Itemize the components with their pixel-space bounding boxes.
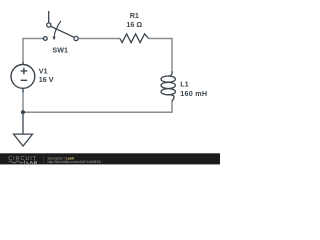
svg-text:160 mH: 160 mH: [180, 89, 207, 98]
circuitlab logo wave: [9, 161, 23, 163]
junction node: [21, 110, 25, 114]
wire R1 to L1 top: [149, 39, 172, 71]
svg-text:R1: R1: [130, 11, 139, 20]
svg-text:L1: L1: [180, 79, 188, 88]
wire switch right to R1: [78, 38, 120, 40]
wire V1 top to switch left: [23, 39, 43, 62]
voltage source V1: [11, 61, 35, 92]
svg-text:16 Ω: 16 Ω: [126, 20, 142, 29]
footer separator: [43, 155, 45, 163]
svg-text:LAB: LAB: [26, 160, 37, 165]
circuitlab logo divider tick: [24, 160, 26, 163]
footer bar: [0, 153, 220, 164]
switch arrow head: [52, 37, 55, 41]
ground: [14, 112, 33, 146]
wire V1 bottom to junction: [22, 92, 24, 112]
svg-text:http://circuitlab.com/c4467ea1: http://circuitlab.com/c4467ea15834/: [48, 160, 102, 164]
switch SW1: [43, 11, 78, 41]
resistor R1: [120, 34, 149, 43]
svg-text:SW1: SW1: [52, 46, 68, 55]
svg-text:16 V: 16 V: [39, 75, 54, 84]
inductor L1: [161, 71, 175, 102]
wire L1 bottom along bottom to junction: [23, 101, 172, 112]
